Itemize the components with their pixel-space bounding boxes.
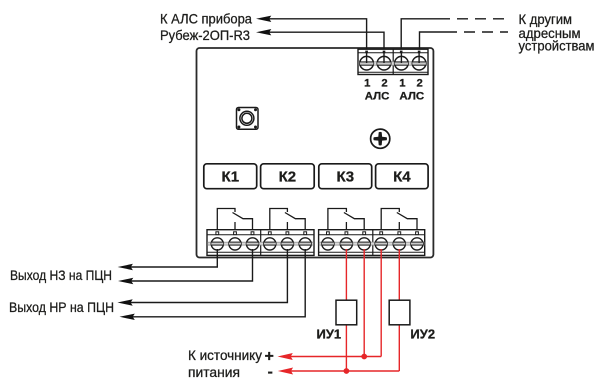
terminal screw К2.1 — [263, 238, 276, 250]
svg-text:Выход НР на ПЦН: Выход НР на ПЦН — [9, 299, 114, 315]
svg-text:питания: питания — [188, 364, 240, 380]
wire К1.1 to Выход НЗ на ПЦН (arrow) — [118, 249, 218, 270]
svg-text:К АЛС прибора: К АЛС прибора — [160, 11, 252, 27]
relay K1 — [204, 164, 257, 189]
relay K2 changeover contact — [270, 209, 305, 234]
terminal screw К1.2 — [228, 238, 241, 250]
mounting screw (phillips) — [371, 129, 390, 148]
wire К1.3 to Выход НЗ на ПЦН (arrow) — [118, 249, 253, 284]
wire entry square К2.2 — [286, 232, 289, 235]
wire К3.3 to plus bus (red) — [363, 249, 365, 357]
wire entry square АЛС1.1 — [365, 51, 368, 54]
terminal screw К3.1 — [321, 238, 334, 250]
wire tail into screw АЛС2.2 — [418, 52, 420, 64]
wire АЛС2 pin1 to other addressable devices (dashed) — [401, 19, 504, 52]
terminal screw АЛС1.2 — [377, 56, 392, 70]
output terminal block K1/K2 — [207, 230, 314, 256]
terminal screw К4.2 — [393, 238, 406, 250]
wire АЛС1 pin1 to К АЛС прибора (arrow) — [256, 16, 367, 52]
terminal screw К3.2 — [340, 238, 353, 250]
terminal screw К4.1 — [375, 238, 388, 250]
wire entry square К1.2 — [234, 232, 237, 235]
terminal screw АЛС2.2 — [412, 56, 427, 70]
wire entry square К1.1 — [216, 232, 219, 235]
АЛС terminal block — [358, 49, 428, 74]
plus supply bus (red, arrow) — [278, 353, 382, 360]
wire К3.2 to ИУ1 and minus bus (red) — [345, 249, 347, 371]
actuator ИУ2 — [389, 300, 410, 325]
svg-text:ИУ1: ИУ1 — [317, 327, 342, 342]
svg-text:АЛС: АЛС — [365, 90, 390, 102]
wire entry square К3.2 — [345, 232, 348, 235]
wire entry square АЛС2.1 — [400, 51, 403, 54]
relay K1 changeover contact — [217, 209, 252, 234]
terminal screw К4.3 — [410, 238, 423, 250]
svg-text:К3: К3 — [337, 169, 355, 186]
relay K3 changeover contact — [328, 209, 364, 234]
wire tail into screw АЛС1.2 — [383, 52, 385, 64]
svg-text:+: + — [265, 348, 274, 365]
wire entry square АЛС1.2 — [383, 51, 386, 54]
junction dot minus bus / ИУ1 wire — [344, 368, 350, 374]
terminal screw К2.2 — [281, 238, 294, 250]
svg-text:Рубеж-2ОП-R3: Рубеж-2ОП-R3 — [160, 27, 250, 43]
wire tail into screw АЛС1.1 — [366, 52, 368, 64]
terminal screw АЛС2.1 — [394, 56, 409, 70]
wire entry square АЛС2.2 — [418, 51, 421, 54]
relay K3 — [319, 164, 372, 189]
terminal screw К2.3 — [299, 238, 312, 250]
terminal screw К1.3 — [246, 238, 259, 250]
wire АЛС2 pin2 to other addressable devices (dashed) — [420, 32, 509, 52]
relay K2 — [261, 164, 315, 189]
svg-text:К2: К2 — [279, 169, 297, 186]
svg-text:ИУ2: ИУ2 — [410, 327, 435, 342]
wire К4.2 to ИУ2 and minus bus (red) — [398, 249, 400, 371]
wire entry square К4.3 — [416, 232, 419, 235]
board outline (module PCB) — [197, 48, 434, 258]
minus supply bus (red, arrow) — [278, 368, 400, 375]
terminal screw К1.1 — [211, 238, 224, 250]
relay K4 changeover contact — [381, 209, 417, 234]
svg-text:К источнику: К источнику — [188, 347, 262, 363]
wire entry square К3.3 — [363, 232, 366, 235]
wire К2.3 to Выход НР на ПЦН (arrow) — [120, 249, 306, 320]
svg-text:2: 2 — [417, 77, 423, 89]
svg-text:К4: К4 — [393, 169, 411, 186]
svg-text:Выход НЗ на ПЦН: Выход НЗ на ПЦН — [10, 267, 112, 283]
tactile button SW1 — [237, 108, 259, 130]
wire К4.1 to plus bus (red) — [380, 249, 382, 357]
wire entry square К4.2 — [398, 232, 401, 235]
wire АЛС1 pin2 to К АЛС прибора (arrow) — [256, 29, 384, 52]
relay K4 — [376, 164, 429, 189]
wire К2.2 to Выход НР на ПЦН (arrow) — [117, 249, 287, 306]
wire entry square К3.1 — [327, 232, 330, 235]
svg-text:1: 1 — [364, 77, 370, 89]
wire entry square К4.1 — [380, 232, 383, 235]
terminal screw АЛС1.1 — [359, 56, 374, 70]
svg-text:устройствам: устройствам — [519, 37, 595, 53]
wire entry square К2.1 — [268, 232, 271, 235]
junction dot plus bus / К3.3 wire — [361, 354, 367, 360]
svg-text:1: 1 — [399, 77, 405, 89]
svg-text:АЛС: АЛС — [399, 90, 424, 102]
svg-text:2: 2 — [381, 77, 387, 89]
svg-text:-: - — [268, 364, 273, 381]
wire entry square К2.3 — [304, 232, 307, 235]
wire tail into screw АЛС2.1 — [400, 52, 402, 64]
svg-text:К1: К1 — [222, 169, 240, 186]
output terminal block K3/K4 — [319, 230, 425, 256]
terminal screw К3.3 — [358, 238, 371, 250]
wire entry square К1.3 — [251, 232, 254, 235]
actuator ИУ1 — [336, 300, 357, 325]
